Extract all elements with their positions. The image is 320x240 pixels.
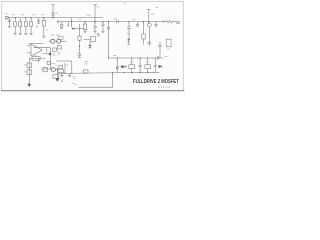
svg-text:rev 2.1 by J.D.: rev 2.1 by J.D.	[157, 86, 171, 89]
svg-text:FULLDRIVE 2 MOSFET: FULLDRIVE 2 MOSFET	[133, 79, 179, 85]
